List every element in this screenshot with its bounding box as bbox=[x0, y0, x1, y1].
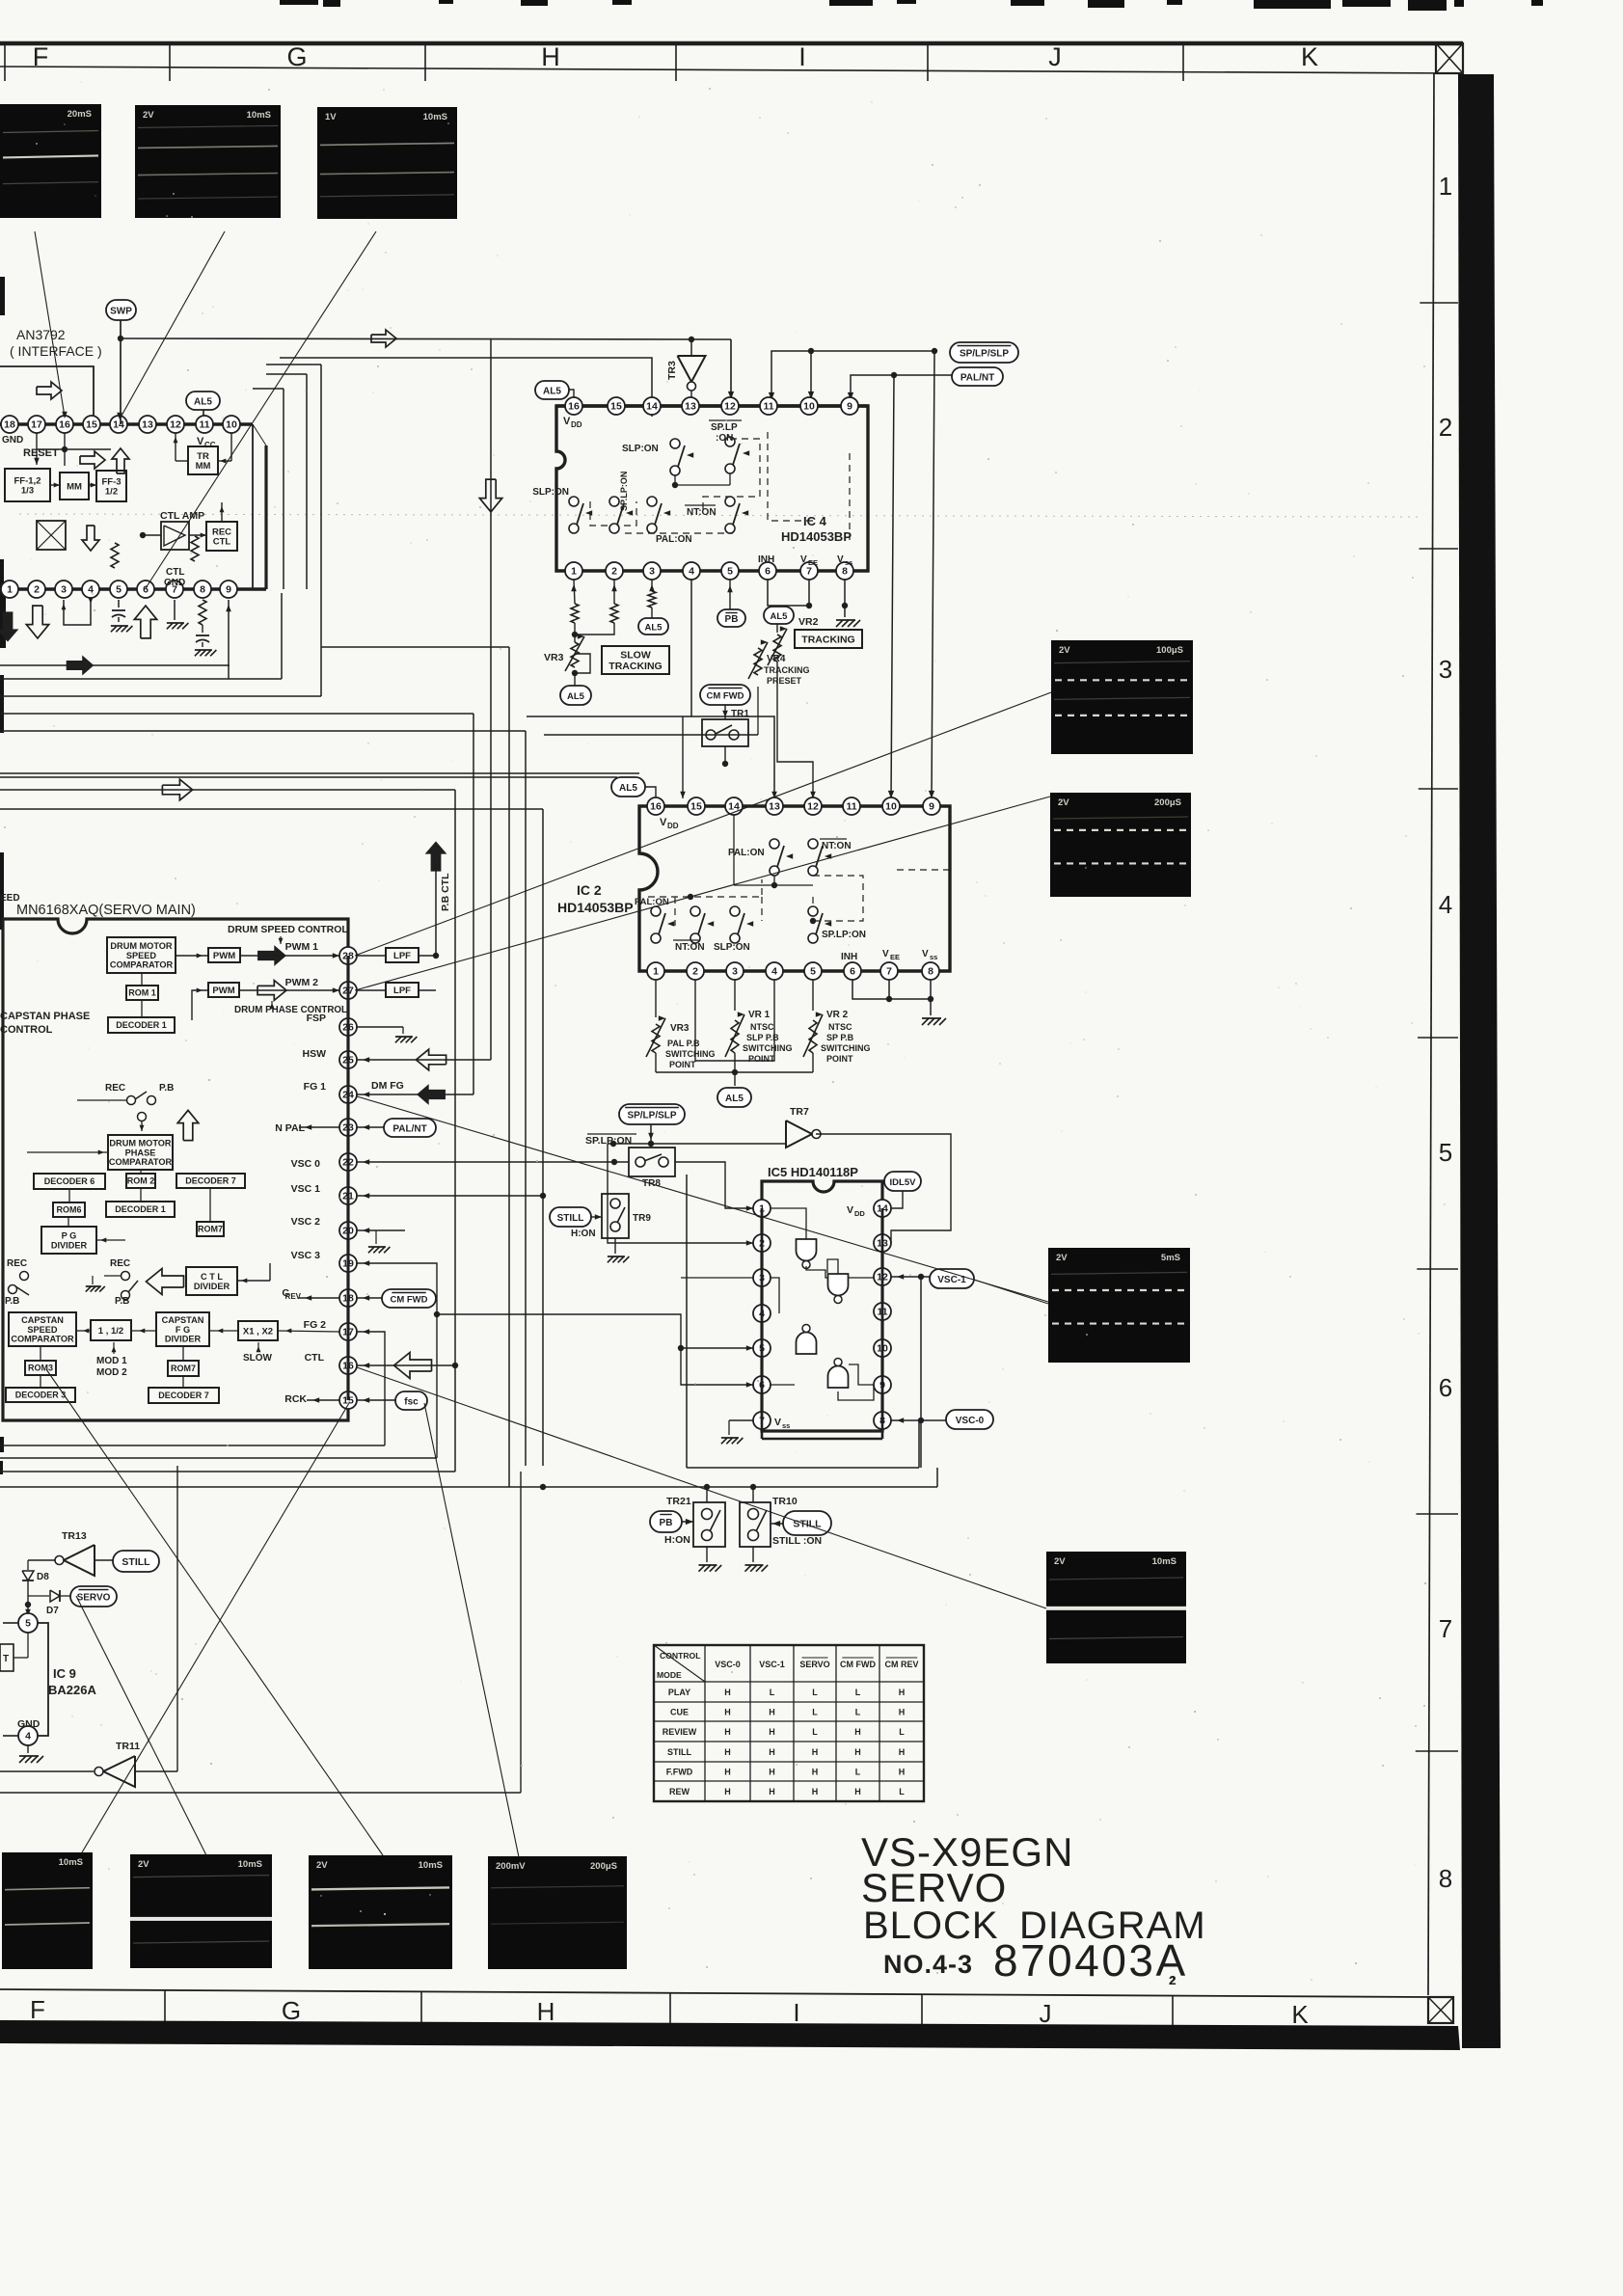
box DECODER 7a bbox=[176, 1174, 245, 1188]
svg-text:K: K bbox=[1301, 42, 1318, 71]
wire dec6 bbox=[69, 1170, 210, 1222]
svg-text:PB: PB bbox=[660, 1518, 673, 1528]
svg-text:ss: ss bbox=[845, 558, 852, 567]
arrow glyph DMFG bbox=[417, 1084, 446, 1105]
svg-text:L: L bbox=[899, 1727, 905, 1737]
box PWM2 bbox=[208, 983, 239, 997]
label H:ON tr21 bbox=[664, 1534, 690, 1546]
svg-text:L: L bbox=[812, 1727, 818, 1737]
label VEE ic2 bbox=[882, 949, 900, 961]
svg-text:H: H bbox=[724, 1707, 731, 1716]
trimmer VR1 ic2 bbox=[725, 1010, 793, 1064]
trimmer VR3 bbox=[565, 634, 590, 686]
pointer line photo2-pin14 bbox=[117, 231, 225, 419]
svg-text:H: H bbox=[724, 1767, 731, 1776]
wire trmm bbox=[174, 433, 231, 463]
switch TR8 bbox=[629, 1148, 675, 1189]
row index bbox=[1416, 172, 1458, 1893]
label INH bbox=[758, 554, 774, 565]
svg-text:POINT: POINT bbox=[826, 1054, 853, 1064]
pointer line photo3-pin6 bbox=[146, 231, 376, 588]
svg-text:AL5: AL5 bbox=[771, 611, 789, 622]
wire pbctl bbox=[435, 865, 437, 956]
pointer line pin16-rphoto4 bbox=[357, 1367, 1046, 1608]
gate NAND-A bbox=[797, 1239, 817, 1269]
box SLOW TRACKING bbox=[602, 646, 669, 674]
svg-text:1V: 1V bbox=[325, 112, 337, 122]
arrow glyph bbox=[134, 606, 156, 638]
wire ctldiv bbox=[237, 1263, 270, 1283]
pill AL5 ic2 bbox=[611, 777, 656, 798]
label VDD ic5 bbox=[847, 1204, 865, 1218]
wire lpf2 bbox=[357, 989, 436, 991]
wire ic5 pin7 gnd bbox=[721, 1420, 753, 1444]
box ROM 1 bbox=[126, 986, 158, 1000]
svg-text:L: L bbox=[812, 1707, 818, 1716]
wire arrow line bbox=[0, 656, 230, 676]
gate NAND-C bbox=[797, 1325, 817, 1355]
label DM FG bbox=[371, 1080, 404, 1092]
svg-text:MN6168XAQ(SERVO MAIN): MN6168XAQ(SERVO MAIN) bbox=[16, 903, 196, 918]
label VR2 bbox=[798, 616, 819, 628]
label IC9 bbox=[48, 1666, 96, 1697]
svg-text:16: 16 bbox=[568, 401, 580, 413]
svg-text:LPF: LPF bbox=[393, 951, 411, 961]
svg-text:D7: D7 bbox=[46, 1606, 59, 1616]
IC2 bottom pins 1-8 bbox=[647, 962, 939, 980]
IC U-IC2 HD14053BP body bbox=[639, 806, 950, 971]
svg-text:6: 6 bbox=[850, 966, 855, 978]
box DRUM MOTOR PHASE COMPARATOR bbox=[108, 1135, 173, 1170]
wire npal bbox=[299, 1124, 384, 1130]
label MN6168XAQ bbox=[16, 903, 196, 918]
wire nest v294 bbox=[253, 389, 284, 589]
switch TR9 bbox=[602, 1194, 651, 1238]
wire tr1 down bbox=[722, 746, 728, 767]
wire bus h839 bbox=[0, 808, 543, 810]
svg-text:DECODER 6: DECODER 6 bbox=[44, 1176, 95, 1186]
svg-text:AL5: AL5 bbox=[567, 691, 585, 702]
wire pg bbox=[68, 1217, 125, 1242]
box ROM 2 bbox=[126, 1174, 155, 1188]
oscillogram photo right-2 bbox=[1050, 793, 1191, 897]
tick label bbox=[1169, 1973, 1176, 1987]
svg-text:7: 7 bbox=[886, 966, 892, 978]
svg-text:13: 13 bbox=[142, 419, 153, 431]
label STILL:ON bbox=[772, 1535, 822, 1547]
oscillogram photo bottom-4 bbox=[488, 1856, 627, 1969]
svg-text:REV: REV bbox=[285, 1292, 302, 1301]
svg-text:2V: 2V bbox=[1059, 645, 1070, 656]
wire bus h722 bbox=[0, 695, 321, 697]
svg-text:SERVO: SERVO bbox=[799, 1660, 829, 1669]
op-amp CTL AMP bbox=[161, 522, 189, 550]
svg-text:10mS: 10mS bbox=[419, 1860, 443, 1871]
pill AL5 below ic4-3 bbox=[638, 618, 668, 635]
switch REC/PB drum bbox=[105, 1083, 174, 1131]
ground tr10 bbox=[744, 1547, 768, 1572]
arrow glyph bbox=[425, 841, 447, 871]
switch ic2 b4 bbox=[808, 906, 866, 943]
svg-text:PWM: PWM bbox=[213, 951, 235, 961]
wire capstan chain bbox=[76, 1329, 339, 1334]
wire vr2 down bbox=[777, 687, 816, 798]
resistor r2 bbox=[575, 580, 618, 635]
wire AL5 to pin11 bbox=[203, 410, 204, 416]
svg-text:8: 8 bbox=[928, 966, 933, 978]
wire CTL feed bbox=[427, 1364, 455, 1366]
svg-text:NTSC: NTSC bbox=[750, 1022, 774, 1032]
wire bus v292 bbox=[281, 593, 283, 679]
label TR21 bbox=[666, 1496, 691, 1507]
label INH ic2 bbox=[841, 952, 857, 962]
svg-text:CM FWD: CM FWD bbox=[706, 690, 744, 701]
svg-text:EED: EED bbox=[0, 893, 20, 904]
wire ic4pin4 down bbox=[527, 580, 777, 798]
wire nand b bbox=[827, 1259, 874, 1311]
pointer line rom3-photoC bbox=[46, 1369, 383, 1855]
svg-text:H: H bbox=[769, 1707, 775, 1716]
svg-text:CONTROL: CONTROL bbox=[0, 1024, 53, 1036]
svg-text:SLOW: SLOW bbox=[620, 650, 651, 662]
svg-text:4: 4 bbox=[1439, 890, 1452, 919]
svg-text:( INTERFACE ): ( INTERFACE ) bbox=[10, 343, 102, 359]
svg-text:L: L bbox=[855, 1767, 861, 1776]
svg-text:EE: EE bbox=[890, 953, 900, 961]
svg-text:AL5: AL5 bbox=[645, 622, 663, 633]
svg-text:H: H bbox=[899, 1767, 906, 1776]
svg-text:10: 10 bbox=[226, 419, 237, 431]
pill AL5 ic4 bbox=[535, 381, 574, 399]
svg-text:14: 14 bbox=[646, 401, 658, 413]
trimmer VR4 bbox=[748, 639, 810, 686]
svg-text:1/3: 1/3 bbox=[21, 486, 34, 497]
wire fg1 bbox=[357, 1092, 441, 1097]
svg-text:SWITCHING: SWITCHING bbox=[821, 1043, 871, 1053]
svg-text:2V: 2V bbox=[1058, 797, 1069, 808]
svg-text:G: G bbox=[282, 1996, 301, 2025]
pill PAL/NT mn bbox=[384, 1119, 436, 1137]
svg-text:5: 5 bbox=[727, 566, 733, 578]
svg-text:K: K bbox=[1291, 2000, 1309, 2029]
svg-text:CM FWD: CM FWD bbox=[840, 1660, 876, 1669]
top ruler bbox=[0, 42, 1463, 81]
box ROM6 bbox=[53, 1202, 85, 1217]
svg-text:COMPARATOR: COMPARATOR bbox=[110, 960, 174, 970]
svg-text:DRUM MOTOR: DRUM MOTOR bbox=[109, 1138, 172, 1148]
svg-text:SWP: SWP bbox=[110, 306, 132, 316]
title NO.4-3 bbox=[883, 1950, 973, 1979]
label GND pin18 bbox=[2, 435, 23, 446]
label SP.LP:ON tr8 bbox=[585, 1134, 636, 1147]
pill CM FWD bbox=[700, 685, 750, 705]
svg-text:CONTROL: CONTROL bbox=[660, 1651, 701, 1661]
svg-text:DD: DD bbox=[667, 822, 679, 830]
diode D8 bbox=[22, 1571, 49, 1582]
svg-text:RCK: RCK bbox=[284, 1393, 307, 1405]
resistor pin8 bbox=[195, 600, 217, 656]
label IC4 name bbox=[781, 514, 852, 544]
svg-text:7: 7 bbox=[1439, 1614, 1452, 1643]
svg-text:F G: F G bbox=[176, 1325, 190, 1335]
svg-text:H: H bbox=[899, 1688, 906, 1697]
wire nand a bbox=[771, 1208, 874, 1278]
svg-text:2: 2 bbox=[611, 566, 617, 578]
svg-text:H: H bbox=[769, 1747, 775, 1757]
label DRUM SPEED CONTROL bbox=[228, 924, 348, 944]
oscillogram photo top-2 bbox=[135, 105, 281, 218]
wire bus h671 bbox=[321, 646, 509, 648]
svg-text:TR13: TR13 bbox=[62, 1530, 87, 1542]
svg-text:H:ON: H:ON bbox=[664, 1534, 690, 1546]
wire vsc2 bbox=[357, 1228, 405, 1253]
wire ctlamp bbox=[140, 532, 206, 538]
svg-text:2V: 2V bbox=[1054, 1556, 1066, 1567]
svg-text:H: H bbox=[724, 1688, 731, 1697]
wire bus h805 bbox=[0, 776, 617, 778]
svg-text:4: 4 bbox=[25, 1731, 31, 1742]
svg-text:1: 1 bbox=[1439, 172, 1452, 201]
svg-text:P.B: P.B bbox=[159, 1083, 174, 1094]
wire ctl16 bbox=[357, 1363, 427, 1368]
svg-text:5: 5 bbox=[1439, 1138, 1452, 1167]
arrow glyph bbox=[80, 451, 105, 469]
arrow glyph CTL bbox=[394, 1353, 432, 1379]
svg-text:V: V bbox=[800, 554, 807, 565]
arrow glyph HSW bbox=[416, 1049, 446, 1070]
svg-text:PAL:ON: PAL:ON bbox=[656, 534, 692, 545]
switch ic2 t2 bbox=[808, 839, 852, 876]
svg-text:PAL:ON: PAL:ON bbox=[635, 897, 669, 907]
resistor bbox=[111, 543, 119, 568]
svg-text:13: 13 bbox=[769, 801, 780, 813]
wire bus v528 bbox=[508, 647, 510, 1487]
wire SWP to pin14 bbox=[118, 320, 123, 424]
oscillogram photo bottom-1 bbox=[2, 1852, 93, 1969]
title BLOCK DIAGRAM bbox=[863, 1904, 1206, 1947]
svg-text:V: V bbox=[837, 554, 844, 565]
svg-text:IC 9: IC 9 bbox=[53, 1666, 76, 1681]
pill STILL tr10 bbox=[783, 1511, 831, 1535]
ground tr21 bbox=[698, 1547, 721, 1572]
svg-text:NT:ON: NT:ON bbox=[822, 841, 852, 851]
label ZED bbox=[0, 893, 20, 904]
svg-text:V: V bbox=[774, 1417, 781, 1428]
svg-text:1 , 1/2: 1 , 1/2 bbox=[98, 1326, 123, 1337]
dashed net ic4 bbox=[590, 432, 850, 540]
box PWM1 bbox=[208, 948, 240, 962]
wire tr13 out bbox=[95, 1559, 113, 1561]
svg-text:H: H bbox=[854, 1747, 861, 1757]
svg-text:20mS: 20mS bbox=[68, 109, 92, 120]
svg-text:15: 15 bbox=[690, 801, 702, 813]
svg-text:DRUM PHASE CONTROL: DRUM PHASE CONTROL bbox=[234, 1005, 347, 1015]
oscillogram photo top-3 bbox=[317, 107, 457, 219]
arrow glyph bbox=[26, 606, 48, 638]
switch REC/PB 2 bbox=[86, 1258, 138, 1307]
wire bus h1512 bbox=[0, 1457, 437, 1459]
svg-text:AL5: AL5 bbox=[543, 386, 561, 396]
pointer line servo-photoB bbox=[76, 1596, 206, 1855]
pill AL5 bbox=[186, 392, 220, 410]
pill AL5 vr3 bbox=[560, 686, 591, 705]
svg-text:T: T bbox=[3, 1654, 9, 1664]
box FF-3 1/2 bbox=[96, 471, 126, 501]
svg-text:17: 17 bbox=[31, 419, 42, 431]
wire ic5 pin2 in bbox=[608, 1144, 753, 1246]
svg-text:SWITCHING: SWITCHING bbox=[743, 1043, 793, 1053]
wire ic2 pin5 down bbox=[812, 980, 814, 1011]
pill STILL tr9 bbox=[550, 1207, 591, 1227]
svg-text:SP/LP/SLP: SP/LP/SLP bbox=[627, 1110, 676, 1121]
svg-text:10mS: 10mS bbox=[59, 1857, 83, 1868]
switch TR10 bbox=[740, 1487, 771, 1547]
svg-text:SP.LP:ON: SP.LP:ON bbox=[585, 1135, 632, 1147]
svg-text:STILL :ON: STILL :ON bbox=[772, 1535, 822, 1547]
box DECODER 1a bbox=[108, 1017, 175, 1033]
wire hsw bbox=[357, 1057, 441, 1063]
svg-text:IC5 HD140118P: IC5 HD140118P bbox=[768, 1165, 858, 1179]
pill fsc bbox=[395, 1391, 427, 1410]
svg-text:3: 3 bbox=[732, 966, 738, 978]
svg-text:ROM7: ROM7 bbox=[198, 1225, 223, 1234]
svg-text:PLAY: PLAY bbox=[668, 1688, 690, 1697]
svg-text:I: I bbox=[798, 42, 806, 71]
resistor bbox=[191, 536, 199, 561]
wire ic5 pin5 in bbox=[437, 1314, 753, 1351]
svg-text:4: 4 bbox=[771, 966, 777, 978]
svg-text:F: F bbox=[30, 1995, 45, 2024]
svg-text:PB: PB bbox=[725, 614, 739, 625]
corner marker bbox=[1428, 1997, 1453, 2023]
wire sw join bbox=[672, 473, 730, 488]
control mode table bbox=[654, 1645, 924, 1801]
wire nest v318 bbox=[266, 374, 307, 589]
wire bus h740 bbox=[0, 713, 473, 715]
svg-text:CM FWD: CM FWD bbox=[390, 1294, 427, 1305]
svg-text:DD: DD bbox=[571, 420, 582, 429]
bottom ruler bbox=[0, 1989, 1428, 2029]
switch ic2 b1 bbox=[635, 897, 674, 943]
wire vsc1 pill bbox=[891, 1274, 930, 1280]
box TRACKING bbox=[795, 630, 862, 648]
svg-text:fsc: fsc bbox=[404, 1396, 419, 1407]
svg-text:MOD 2: MOD 2 bbox=[96, 1367, 127, 1378]
label TR10 bbox=[772, 1496, 798, 1507]
svg-text:H: H bbox=[854, 1727, 861, 1737]
svg-text:H: H bbox=[541, 42, 560, 71]
svg-text:F.FWD: F.FWD bbox=[666, 1767, 693, 1776]
svg-text:AL5: AL5 bbox=[194, 396, 212, 407]
wire still tr9 bbox=[591, 1214, 602, 1220]
svg-text:H: H bbox=[769, 1727, 775, 1737]
pill PB tr21 bbox=[650, 1511, 682, 1532]
svg-text:L: L bbox=[855, 1688, 861, 1697]
svg-text:INH: INH bbox=[758, 554, 774, 565]
box ROM7a bbox=[197, 1222, 224, 1236]
wire bus h1542 TR21 bbox=[0, 1468, 937, 1490]
svg-text:VR4: VR4 bbox=[767, 654, 786, 664]
wire y371 bbox=[280, 358, 652, 417]
svg-text:12: 12 bbox=[724, 401, 736, 413]
svg-text:3: 3 bbox=[649, 566, 655, 578]
wire splp down bbox=[648, 1124, 654, 1147]
wire ic5 pin3/4 loop bbox=[681, 1278, 771, 1313]
IC AN3792 bottom pins 1-9 bbox=[1, 581, 237, 598]
svg-text:L: L bbox=[855, 1707, 861, 1716]
title 870403A bbox=[993, 1935, 1188, 1987]
svg-text:H: H bbox=[724, 1727, 731, 1737]
label Vss ic5 bbox=[774, 1417, 790, 1430]
box TR MM bbox=[188, 446, 218, 474]
wire tr13 in bbox=[28, 1560, 55, 1570]
svg-text:2: 2 bbox=[1439, 413, 1452, 442]
svg-text:7: 7 bbox=[806, 566, 812, 578]
wire nand c bbox=[771, 1313, 816, 1360]
svg-text:MM: MM bbox=[196, 461, 211, 472]
IC AN3792 body bbox=[0, 366, 266, 589]
svg-text:3: 3 bbox=[1439, 655, 1452, 684]
trimmer VR2 bbox=[768, 624, 787, 687]
label TR1 bbox=[731, 709, 749, 719]
box DRUM MOTOR SPEED COMPARATOR bbox=[107, 937, 176, 973]
switch ic2 t1 bbox=[728, 839, 793, 876]
arrow glyph bbox=[0, 611, 18, 641]
wire rom3 bbox=[41, 1346, 183, 1388]
svg-text:X1 , X2: X1 , X2 bbox=[243, 1326, 273, 1337]
pill IDL5V bbox=[884, 1172, 921, 1191]
arrow drum speed bbox=[257, 945, 286, 966]
svg-text:GND: GND bbox=[2, 435, 23, 446]
svg-text:SERVO: SERVO bbox=[77, 1592, 111, 1603]
wire crev bbox=[299, 1295, 382, 1301]
wire bus v491 bbox=[473, 714, 474, 1094]
bottom bar bbox=[0, 2020, 1460, 2050]
oscillogram photo bottom-3 bbox=[309, 1855, 452, 1969]
svg-text:L: L bbox=[770, 1688, 775, 1697]
wire trimmer join bbox=[656, 1053, 813, 1086]
wire ic4 inh bbox=[768, 580, 812, 608]
svg-text:TR9: TR9 bbox=[633, 1213, 651, 1224]
label VCC pin11 bbox=[197, 436, 216, 449]
box REC CTL bbox=[206, 522, 237, 551]
box CAPSTAN FG DIVIDER bbox=[156, 1312, 209, 1346]
svg-text:VSC-0: VSC-0 bbox=[956, 1416, 985, 1426]
svg-text:TRACKING: TRACKING bbox=[764, 665, 810, 675]
svg-text:6: 6 bbox=[1439, 1373, 1452, 1402]
svg-text:STILL: STILL bbox=[122, 1556, 150, 1568]
svg-text:SLP:ON: SLP:ON bbox=[622, 444, 659, 454]
svg-text:PAL/NT: PAL/NT bbox=[392, 1123, 426, 1134]
svg-text:10mS: 10mS bbox=[1152, 1556, 1177, 1567]
svg-text:PHASE: PHASE bbox=[125, 1148, 156, 1157]
label RESET bbox=[23, 447, 59, 459]
wire bus h1499 bbox=[0, 1445, 385, 1446]
IC2 top pins 16-9 bbox=[647, 797, 940, 815]
wire DM FG feed bbox=[441, 1094, 473, 1095]
pill PAL/NT bbox=[952, 367, 1003, 386]
pill SERVO bbox=[70, 1586, 117, 1607]
svg-text:100μS: 100μS bbox=[1156, 645, 1183, 656]
box ROM7b bbox=[168, 1361, 199, 1376]
box X1,X2 bbox=[238, 1321, 278, 1340]
svg-text:POINT: POINT bbox=[669, 1060, 696, 1069]
IC4 bottom pins 1-8 bbox=[565, 562, 853, 580]
svg-text:ROM6: ROM6 bbox=[56, 1205, 81, 1215]
wire r2 to ic2 bbox=[544, 687, 758, 798]
wire still arrow bbox=[771, 1521, 783, 1526]
svg-text:G: G bbox=[286, 42, 307, 71]
